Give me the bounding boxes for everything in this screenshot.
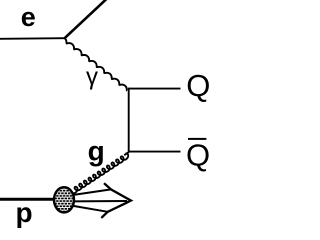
svg-text:γ: γ [86,64,98,91]
svg-text:e: e [21,2,36,32]
svg-text:Q: Q [186,68,210,103]
svg-text:Q: Q [186,138,210,173]
svg-text:g: g [88,136,105,167]
svg-text:p: p [16,197,33,228]
